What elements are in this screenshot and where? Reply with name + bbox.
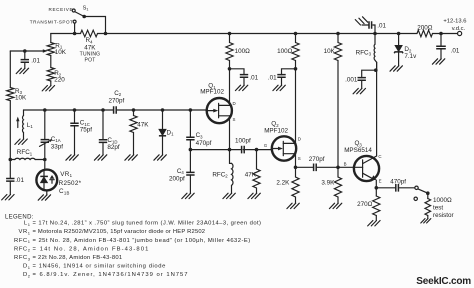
svg-text:L1: L1 — [24, 221, 31, 227]
capacitor .01 (left line) — [6, 179, 14, 182]
svg-text:MPF102: MPF102 — [200, 89, 224, 96]
svg-text:100pf: 100pf — [235, 138, 251, 145]
resistor 47K (Q2 gate) — [253, 169, 260, 188]
resistor R4 47K tuning pot — [81, 30, 98, 37]
capacitor 270pf (series) — [314, 164, 317, 172]
capacitor .01 (Q1 drain bypass) — [240, 75, 248, 78]
resistor 10K (rail) — [334, 43, 341, 61]
capacitor .01 (Q2 drain bypass) — [277, 75, 285, 78]
ground below C4 — [182, 193, 194, 198]
wire emitter to 470pf — [376, 187, 396, 189]
wire Q3 emitter down — [375, 180, 377, 196]
svg-text:= 6.8/9.1v. Zener, 1N4736/1N47: = 6.8/9.1v. Zener, 1N4736/1N4739 or 1N75… — [33, 272, 189, 278]
svg-text:RFC3: RFC3 — [14, 255, 31, 261]
switch S1 transmit contact — [73, 20, 76, 23]
svg-text:VR1: VR1 — [60, 171, 72, 178]
svg-text:G: G — [264, 143, 267, 148]
svg-text:100Ω: 100Ω — [235, 48, 251, 55]
capacitor C1D 82pf — [99, 140, 107, 143]
junction mid rail D1 — [161, 108, 165, 112]
wire 270pf to Q3 base — [316, 166, 354, 168]
resistor 2.2K — [292, 177, 299, 197]
wire bypass to ground — [243, 77, 245, 85]
capacitor 470pf (series) — [396, 184, 399, 192]
svg-text:75pf: 75pf — [80, 127, 93, 134]
wire test resistor to ground — [427, 216, 429, 219]
wire 47K to ground — [133, 133, 135, 155]
wire C4 to ground — [189, 175, 191, 193]
resistor R1 10K — [47, 43, 54, 56]
wire left cap to ground — [9, 181, 11, 194]
junction 47K gate — [255, 148, 259, 152]
svg-text:E: E — [379, 178, 382, 183]
trimmer capacitor C1A — [41, 140, 49, 143]
capacitor C4 200pf — [186, 172, 194, 175]
diode D1 — [159, 129, 166, 135]
svg-text:RFC3: RFC3 — [356, 49, 372, 56]
svg-text:470pf: 470pf — [390, 179, 406, 186]
wire 10K down to base node — [337, 61, 339, 168]
wire RFC2 to ground — [231, 185, 233, 193]
svg-text:= 22t No.28, Amidon FB-43-801: = 22t No.28, Amidon FB-43-801 — [33, 255, 123, 261]
svg-text:= 25t No. 28, Amidon FB-43-801: = 25t No. 28, Amidon FB-43-801 “jumbo be… — [33, 238, 251, 244]
wire transmit contact to rail — [74, 23, 76, 33]
svg-text:R2502*: R2502* — [59, 180, 82, 187]
svg-text:270pf: 270pf — [309, 156, 325, 163]
svg-text:= Motorola R2502/MV2105, 15pf: = Motorola R2502/MV2105, 15pf varactor d… — [33, 229, 206, 235]
wire RFC3 top bypass — [373, 25, 375, 34]
svg-text:RFC2: RFC2 — [212, 171, 228, 178]
wire drain node to bypass cap — [230, 69, 245, 75]
resistor 47K (osc) — [130, 116, 137, 133]
wire mid rail corner to L1 — [23, 110, 25, 116]
svg-text:MPS6514: MPS6514 — [344, 147, 372, 154]
wire rail corner to R1 — [50, 34, 52, 43]
wire C1D branch — [102, 110, 104, 140]
resistor 100ohm (Q2 drain) — [292, 43, 299, 61]
resistor R3 10K — [7, 88, 14, 101]
svg-text:470pf: 470pf — [196, 140, 212, 147]
svg-text:RFC2: RFC2 — [14, 246, 31, 252]
junction RFC1 left — [9, 158, 13, 162]
wire .001 to ground — [361, 80, 363, 88]
svg-text:2.2K: 2.2K — [276, 180, 290, 187]
wire L1 to ground — [23, 133, 25, 140]
svg-text:82pf: 82pf — [107, 144, 120, 151]
ground left line — [2, 195, 14, 200]
wire top rail — [51, 33, 81, 35]
pot wiper arrow R1 — [10, 50, 44, 52]
svg-text:RFC1: RFC1 — [14, 238, 31, 244]
svg-text:LEGEND:: LEGEND: — [5, 214, 34, 220]
ground below 270ohm — [368, 221, 380, 226]
svg-text:47K: 47K — [245, 172, 257, 179]
svg-text:10K: 10K — [15, 95, 27, 102]
wire C3 to node — [189, 140, 191, 150]
svg-text:L1: L1 — [27, 122, 34, 129]
slug arrow L1 — [17, 120, 19, 128]
junction mid rail C3 — [189, 108, 193, 112]
wire source to 270pf — [296, 166, 314, 168]
output lever — [418, 189, 428, 193]
ground below C1C — [66, 155, 78, 160]
capacitor .001 — [358, 78, 366, 81]
svg-text:D2: D2 — [23, 272, 31, 278]
ground below Q2 bypass — [273, 85, 285, 90]
wire 100pf to Q2 gate — [243, 149, 272, 151]
ground below D2 — [390, 66, 402, 71]
ground below C1D — [94, 155, 106, 160]
switch S1 lever — [75, 12, 84, 17]
junction Q2 source node — [294, 166, 298, 170]
wire C1A to RFC1 junction — [44, 142, 46, 169]
transistor Q3 MPS6514 — [354, 156, 379, 181]
wire Q2 source down — [295, 154, 297, 177]
svg-text:MPF102: MPF102 — [264, 128, 288, 135]
wire S1 pivot to rail — [84, 17, 105, 34]
svg-text:3.9K: 3.9K — [321, 180, 335, 187]
svg-text:47K: 47K — [84, 44, 96, 51]
svg-text:200pf: 200pf — [169, 175, 185, 182]
ground below RFC2 — [223, 193, 235, 198]
wire D1 to ground — [162, 136, 164, 155]
wire C1A branch upper — [44, 110, 46, 140]
ground below supply cap — [432, 59, 444, 64]
wire wiper line down left — [9, 51, 11, 88]
switch S1 receive contact — [72, 9, 75, 12]
capacitor C3 470pf — [186, 137, 194, 140]
wire D2 to ground — [398, 52, 400, 66]
wire C1C branch — [74, 110, 76, 123]
transistor Q1 MPF102 — [207, 98, 232, 123]
svg-text:test: test — [433, 205, 443, 212]
resistor 200ohm — [417, 30, 433, 37]
svg-text:C: C — [378, 154, 381, 159]
wire R3 to RFC1 — [9, 101, 11, 160]
svg-text:C1A: C1A — [51, 136, 61, 143]
ground below D1 — [154, 155, 166, 160]
wire R1 to R2 — [50, 56, 52, 68]
svg-text:S: S — [298, 156, 301, 161]
wire C1C to ground — [74, 126, 76, 155]
svg-text:+12-13.6: +12-13.6 — [443, 18, 466, 24]
ground below VR1 — [38, 195, 50, 200]
ground below test resistor — [421, 219, 431, 223]
ground below 2.2K — [287, 203, 299, 208]
svg-text:.01: .01 — [451, 47, 460, 54]
junction Q1 source node — [228, 148, 232, 152]
svg-text:RFC1: RFC1 — [17, 149, 33, 156]
inductor L1 — [22, 116, 23, 133]
svg-text:D: D — [298, 136, 301, 141]
svg-text:1000Ω: 1000Ω — [433, 197, 452, 204]
junction test resistor — [426, 191, 430, 195]
wire rail to D2 — [398, 34, 400, 46]
wire supply cap to ground — [440, 49, 442, 59]
svg-text:S1: S1 — [83, 5, 89, 11]
terminal +12V — [458, 31, 462, 35]
wire to test resistor — [427, 193, 429, 198]
svg-text:.01: .01 — [249, 75, 258, 82]
wire Q2 drain node to bypass — [282, 69, 296, 75]
resistor R2 220 — [47, 68, 54, 82]
junction rail Q2 — [294, 32, 298, 36]
wire left line to cap — [9, 160, 11, 179]
capacitor .01 (supply bypass) — [436, 46, 446, 49]
capacitor .01 (RFC3 top) — [369, 21, 372, 29]
wire C1D to ground — [102, 142, 104, 154]
svg-text:= 17t No.24, .281” x .750” slu: = 17t No.24, .281” x .750” slug tuned fo… — [33, 221, 262, 227]
svg-text:S: S — [233, 117, 236, 122]
wire Q3 collector up — [376, 62, 378, 156]
wire 47K branch — [133, 110, 135, 116]
inductor RFC1 — [15, 158, 35, 159]
junction Q1 drain node — [228, 67, 232, 71]
ground below R2 — [42, 86, 54, 91]
resistor 1000ohm test — [425, 199, 431, 216]
ground below 3.9K — [329, 203, 341, 208]
ground below Q1 bypass — [235, 85, 247, 90]
svg-text:R4: R4 — [86, 37, 94, 44]
svg-text:D: D — [233, 101, 236, 106]
wire mid rail — [24, 109, 114, 111]
junction mid rail C1A — [43, 108, 47, 112]
svg-text:7.1v: 7.1v — [404, 53, 417, 60]
svg-text:200Ω: 200Ω — [417, 25, 433, 32]
svg-text:TRANSMIT-SPOT: TRANSMIT-SPOT — [30, 20, 74, 25]
junction rail output cap — [439, 32, 443, 36]
wire Q2 drain up — [295, 61, 297, 144]
junction 3.9K base — [336, 166, 340, 170]
wire rail to 10K — [337, 34, 339, 43]
ground below 47K Q2 — [248, 193, 260, 198]
wire Q2 bypass to ground — [281, 77, 283, 85]
transistor Q2 MPF102 — [272, 136, 296, 160]
wire Q1 drain up — [229, 61, 231, 106]
capacitor 100pf (series) — [242, 146, 245, 154]
wire rail to RFC3 — [374, 34, 376, 45]
svg-text:220: 220 — [54, 76, 65, 83]
inductor RFC3 — [373, 44, 376, 60]
wire wiper junction down — [24, 51, 26, 60]
junction RFC1 right — [43, 158, 47, 162]
capacitor C1C 75pf — [70, 123, 78, 126]
varactor VR1 — [36, 170, 57, 191]
wire 470pf to jack — [398, 187, 414, 189]
switch S1 pivot dot — [82, 15, 86, 19]
junction S1-rail — [104, 32, 108, 36]
svg-text:SeekIC.com: SeekIC.com — [416, 276, 471, 287]
wire cap branch — [440, 34, 442, 47]
wire 2.2K to ground — [295, 197, 297, 203]
svg-text:D1: D1 — [23, 264, 31, 270]
junction mid rail C1C — [73, 108, 77, 112]
junction mid rail 47K — [132, 108, 136, 112]
svg-text:C2: C2 — [114, 90, 122, 97]
svg-text:= 1N456, 1N914 or similar swit: = 1N456, 1N914 or similar switching diod… — [33, 264, 166, 270]
ground below wiper cap — [16, 68, 28, 73]
svg-text:POT: POT — [84, 57, 95, 63]
wire 100ohm to rail — [229, 34, 231, 43]
wire D1 branch — [162, 110, 164, 129]
ground below .001 — [353, 88, 365, 93]
svg-text:C4: C4 — [177, 168, 185, 175]
resistor 3.9K — [334, 177, 341, 197]
svg-text:resistor: resistor — [433, 212, 454, 219]
wire R2 to ground — [50, 81, 52, 86]
output contact top — [415, 186, 418, 189]
svg-text:10K: 10K — [55, 49, 67, 56]
svg-text:.01: .01 — [377, 22, 386, 29]
wire RFC3 node to .001 — [362, 70, 376, 77]
svg-text:VR1: VR1 — [19, 229, 31, 235]
wire cap to ground — [24, 62, 26, 68]
svg-text:RECEIVE: RECEIVE — [49, 7, 74, 12]
svg-text:.01: .01 — [31, 58, 40, 65]
junction C3-C4 node — [189, 148, 193, 152]
junction rail 10K — [336, 32, 340, 36]
wire C3 branch — [189, 110, 191, 137]
wire collector node — [375, 62, 378, 70]
junction Q2 drain node — [294, 67, 298, 71]
wire 3.9K to ground — [337, 197, 339, 203]
svg-text:100Ω: 100Ω — [277, 48, 293, 55]
svg-text:C1B: C1B — [59, 188, 70, 195]
junction rail D2 — [397, 32, 401, 36]
wire RFC2 top lead — [230, 162, 232, 164]
svg-text:v.d.c.: v.d.c. — [452, 26, 466, 32]
capacitor .01 (wiper bypass) — [21, 60, 29, 63]
ground below L1 — [15, 139, 27, 144]
inductor RFC2 — [232, 163, 234, 185]
wire RFC1 leads — [10, 159, 15, 161]
wire 47K branch Q2 — [256, 150, 258, 169]
junction RFC3 bottom — [374, 68, 378, 72]
ground below 47K — [125, 155, 137, 160]
wire cap to chassis — [362, 24, 369, 26]
capacitor C2 270pf (series) — [114, 106, 117, 114]
wire Q2 100ohm to rail — [295, 34, 297, 43]
svg-text:47K: 47K — [137, 121, 149, 128]
svg-text:D1: D1 — [167, 129, 175, 136]
svg-text:33pf: 33pf — [51, 143, 64, 150]
wire VR1 to ground — [46, 190, 48, 194]
junction wiper-cap — [23, 49, 27, 53]
ground RFC3 top (chassis) — [355, 17, 367, 25]
svg-text:C3: C3 — [196, 132, 204, 139]
svg-text:10K: 10K — [324, 48, 336, 55]
junction transmit-rail — [73, 32, 77, 36]
svg-text:.001: .001 — [345, 76, 358, 83]
wire 47K Q2 to ground — [256, 188, 258, 193]
wire 3.9K branch — [337, 167, 339, 177]
wire 270ohm to ground — [375, 216, 377, 221]
svg-text:.01: .01 — [15, 177, 24, 184]
svg-text:270pf: 270pf — [109, 97, 125, 104]
junction Q3 emitter node — [375, 186, 379, 190]
zener diode D2 — [395, 45, 402, 51]
svg-text:.01: .01 — [268, 75, 277, 82]
resistor 100ohm (Q1 drain) — [226, 43, 233, 61]
junction mid rail C1D — [101, 108, 105, 112]
svg-text:= 14t No. 28, Amidon FB-43-801: = 14t No. 28, Amidon FB-43-801 — [33, 246, 150, 252]
wire node to 100pf — [190, 149, 240, 151]
svg-text:270Ω: 270Ω — [357, 201, 373, 208]
wire C4 branch — [189, 150, 191, 173]
wire Q1 source down — [229, 116, 231, 164]
junction rail Q1 — [228, 32, 232, 36]
resistor 270ohm — [373, 196, 380, 216]
output alt contact — [414, 197, 417, 200]
svg-text:B: B — [344, 162, 347, 167]
junction rail RFC3 — [373, 32, 377, 36]
